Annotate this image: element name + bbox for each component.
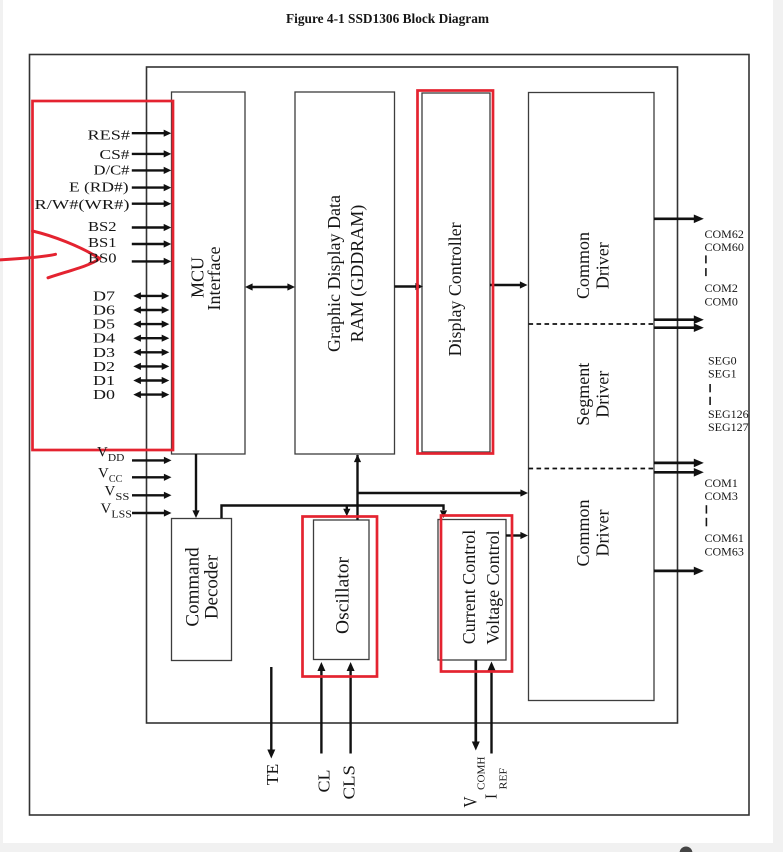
svg-text:BS0: BS0 xyxy=(88,251,117,266)
svg-text:COM2: COM2 xyxy=(705,281,738,295)
svg-text:D6: D6 xyxy=(93,303,115,318)
svg-text:COM60: COM60 xyxy=(705,240,744,254)
svg-text:V: V xyxy=(98,466,109,482)
svg-text:D/C#: D/C# xyxy=(94,163,130,178)
svg-text:V: V xyxy=(101,501,112,517)
svg-text:D0: D0 xyxy=(93,387,115,402)
svg-text:D2: D2 xyxy=(93,359,115,374)
svg-text:I: I xyxy=(481,794,501,799)
svg-text:E (RD#): E (RD#) xyxy=(69,180,129,195)
svg-text:Driver: Driver xyxy=(593,510,613,557)
svg-text:CS#: CS# xyxy=(100,147,130,162)
svg-text:V: V xyxy=(105,484,116,500)
svg-text:RES#: RES# xyxy=(88,127,131,142)
svg-text:COM61: COM61 xyxy=(705,531,744,545)
svg-text:D4: D4 xyxy=(93,331,115,346)
svg-text:COM0: COM0 xyxy=(705,294,738,308)
svg-text:Decoder: Decoder xyxy=(202,554,223,619)
svg-text:CLS: CLS xyxy=(340,765,359,800)
svg-text:V: V xyxy=(460,796,481,808)
svg-text:COM3: COM3 xyxy=(705,489,738,503)
svg-text:Segment: Segment xyxy=(573,363,593,426)
svg-text:V: V xyxy=(97,445,108,461)
svg-text:LSS: LSS xyxy=(111,509,132,520)
svg-text:SEG127: SEG127 xyxy=(708,420,749,434)
svg-text:CL: CL xyxy=(314,770,333,793)
svg-text:COMH: COMH xyxy=(476,756,488,790)
svg-text:D1: D1 xyxy=(93,373,115,388)
svg-text:RAM (GDDRAM): RAM (GDDRAM) xyxy=(347,205,368,343)
svg-text:D7: D7 xyxy=(93,288,115,303)
svg-text:SS: SS xyxy=(115,492,129,503)
svg-text:Driver: Driver xyxy=(593,371,613,418)
svg-text:Interface: Interface xyxy=(204,247,224,311)
svg-text:BS2: BS2 xyxy=(88,219,117,234)
svg-text:D5: D5 xyxy=(93,317,115,332)
svg-text:TE: TE xyxy=(263,764,282,786)
svg-text:SEG0: SEG0 xyxy=(708,353,737,367)
svg-text:SEG1: SEG1 xyxy=(708,366,737,380)
svg-text:Voltage Control: Voltage Control xyxy=(483,530,503,644)
svg-text:Common: Common xyxy=(573,499,593,566)
svg-text:Common: Common xyxy=(573,232,593,299)
svg-text:D3: D3 xyxy=(93,345,115,360)
svg-text:DD: DD xyxy=(108,453,125,464)
svg-text:COM1: COM1 xyxy=(705,476,738,490)
svg-text:COM62: COM62 xyxy=(705,227,744,241)
svg-text:Figure 4-1 SSD1306 Block Diagr: Figure 4-1 SSD1306 Block Diagram xyxy=(286,12,489,27)
svg-text:Current Control: Current Control xyxy=(459,530,479,645)
svg-text:BS1: BS1 xyxy=(88,235,117,250)
svg-text:Graphic Display Data: Graphic Display Data xyxy=(324,195,344,352)
svg-text:Oscillator: Oscillator xyxy=(333,556,354,634)
svg-text:R/W#(WR#): R/W#(WR#) xyxy=(35,197,130,212)
svg-text:REF: REF xyxy=(499,768,510,790)
svg-text:COM63: COM63 xyxy=(705,545,744,559)
svg-text:Display Controller: Display Controller xyxy=(445,222,465,356)
svg-text:Driver: Driver xyxy=(593,242,613,289)
